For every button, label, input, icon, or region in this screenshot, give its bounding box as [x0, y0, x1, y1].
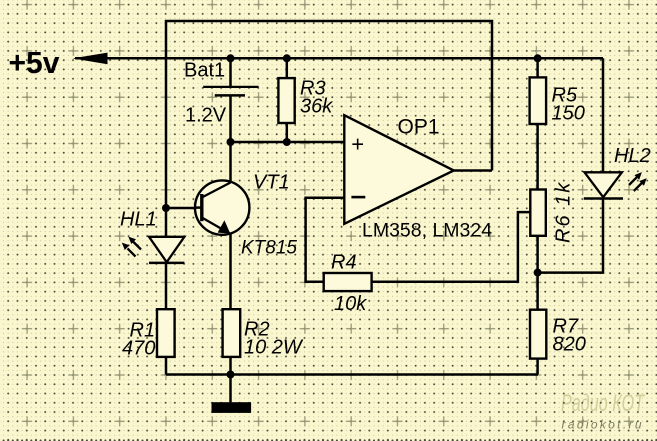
svg-text:36k: 36k	[300, 96, 333, 118]
svg-text:radiokot.ru: radiokot.ru	[562, 418, 642, 432]
svg-text:OP1: OP1	[398, 116, 440, 139]
svg-text:150: 150	[552, 103, 585, 125]
svg-text:+5v: +5v	[9, 45, 61, 80]
svg-text:1.2V: 1.2V	[185, 105, 227, 127]
svg-text:HL1: HL1	[120, 209, 157, 231]
svg-text:VT1: VT1	[253, 172, 290, 194]
svg-text:LM358, LM324: LM358, LM324	[362, 220, 492, 242]
svg-text:470: 470	[122, 338, 155, 360]
svg-text:HL2: HL2	[614, 145, 651, 167]
svg-text:R6 1k: R6 1k	[553, 181, 575, 243]
svg-text:820: 820	[553, 334, 586, 356]
svg-text:KT815: KT815	[241, 238, 297, 259]
svg-text:R4: R4	[331, 252, 357, 274]
svg-text:10 2W: 10 2W	[244, 337, 304, 359]
svg-text:10k: 10k	[334, 293, 367, 315]
svg-text:+: +	[351, 132, 364, 157]
svg-text:Bat1: Bat1	[184, 60, 225, 82]
